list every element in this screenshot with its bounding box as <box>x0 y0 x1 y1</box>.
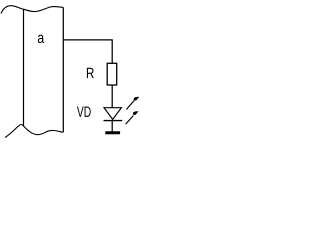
LED VD cathode bar <box>104 120 123 122</box>
LED VD anode triangle <box>104 108 121 120</box>
wire: block a to resistor (top horizontal + down) <box>63 40 112 63</box>
light emission arrow 1 (upper) <box>126 97 139 110</box>
label a <box>38 35 44 43</box>
block a right edge <box>62 7 64 132</box>
block a left edge <box>23 9 25 126</box>
block a (torn-edge outline) top-left curl <box>1 6 24 14</box>
light emission arrow 2 (lower) <box>126 111 139 124</box>
block a bottom torn edge <box>5 124 63 137</box>
terminal bar (thick) <box>105 131 120 134</box>
block a top torn edge <box>24 6 64 11</box>
wire: resistor to LED <box>111 85 113 108</box>
label R <box>87 68 94 78</box>
resistor R body <box>107 63 117 85</box>
wire: LED to terminal bar <box>111 121 113 132</box>
label VD <box>77 107 91 117</box>
